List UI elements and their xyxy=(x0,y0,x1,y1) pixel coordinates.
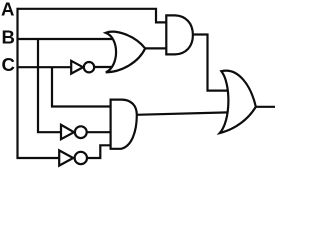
or-gate OR2 (output) xyxy=(220,71,256,133)
wire A left rail down to INV3 xyxy=(18,8,61,158)
inverter INV1 (NOT C) xyxy=(71,61,94,74)
wire B branch down to INV2 xyxy=(38,39,62,132)
wire INV2 out to AND2 mid input xyxy=(87,131,112,133)
wire AND2 out to OR2 bottom input xyxy=(136,112,228,114)
wire A top to AND1 input xyxy=(18,9,168,23)
svg-text:C: C xyxy=(2,54,15,75)
wire C branch down to AND2 top input xyxy=(52,67,111,106)
and-gate AND2 (C·B'·A') xyxy=(111,100,137,149)
wire C to INV1 xyxy=(18,66,73,68)
svg-text:B: B xyxy=(2,27,15,48)
wire INV1 out to OR1 input xyxy=(95,66,115,68)
or-gate OR1 (B + C') xyxy=(106,32,145,73)
wire INV3 out step up to AND2 bottom input xyxy=(87,145,111,158)
wire B to OR1 input xyxy=(18,38,113,40)
wire AND1 out down to OR2 top input xyxy=(193,35,229,91)
svg-text:A: A xyxy=(1,0,14,20)
and-gate AND1 (A·(B+C')) xyxy=(166,15,193,54)
inverter INV3 (NOT A) xyxy=(59,150,87,165)
inverter INV2 (NOT B) xyxy=(61,125,87,139)
wire OR1 out to AND1 input xyxy=(144,47,168,49)
wire OR2 output xyxy=(255,106,275,108)
